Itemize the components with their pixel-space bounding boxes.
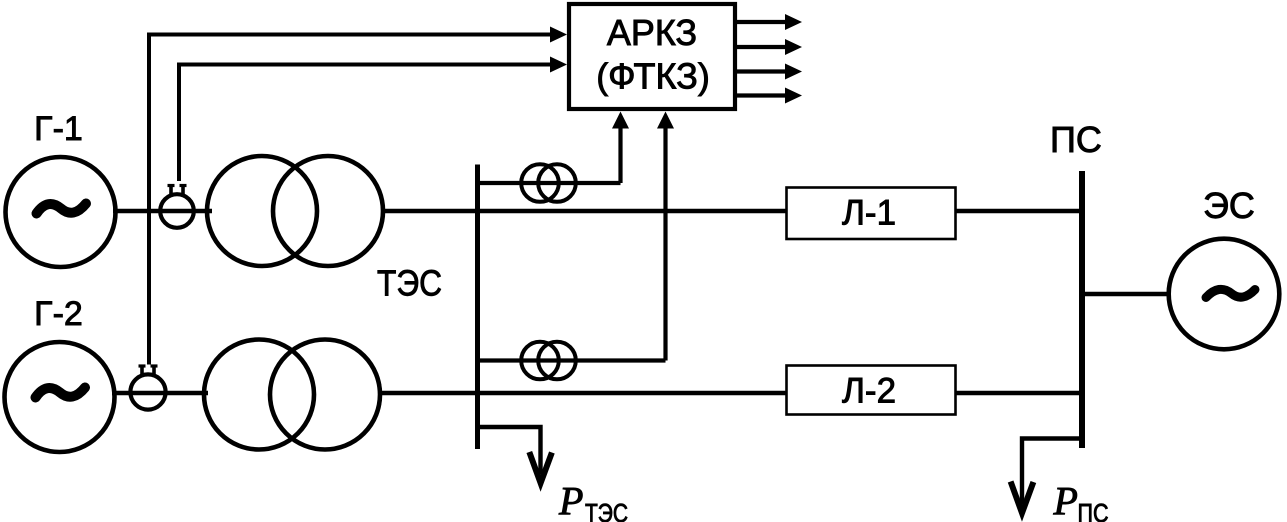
current sensor on G2 lead: [130, 365, 165, 410]
АРКЗ output arrow 1: [737, 14, 802, 30]
bus ПС: [1079, 171, 1085, 448]
label P_ПС: [1053, 479, 1109, 522]
svg-text:ТЭС: ТЭС: [585, 498, 628, 522]
svg-text:Г-1: Г-1: [34, 110, 83, 148]
АРКЗ box: [569, 4, 735, 109]
current sensor on G1 lead: [160, 185, 194, 228]
CT3 double circle: [521, 164, 576, 202]
svg-text:Л-1: Л-1: [842, 194, 896, 233]
wire line1 right segment: [956, 209, 1083, 213]
system ЭС: [1169, 239, 1280, 350]
generator G2: [5, 342, 115, 452]
svg-text:АРКЗ: АРКЗ: [607, 12, 697, 53]
branch wire to CT3: [477, 181, 621, 185]
line box Л-1: [787, 188, 956, 240]
svg-text:Л-2: Л-2: [842, 372, 896, 411]
P_TES branch with down arrow: [477, 427, 552, 483]
svg-text:Г-2: Г-2: [34, 295, 83, 333]
transformer T1: [207, 156, 383, 266]
svg-text:P: P: [558, 479, 583, 522]
wire from sensor G1 to АРКЗ input 2: [179, 57, 567, 182]
wire from sensor G2 to АРКЗ input 1: [149, 27, 567, 365]
wire CT4 to АРКЗ input with arrow: [657, 112, 674, 361]
svg-text:ПС: ПС: [1050, 119, 1102, 160]
wire line2 left segment: [378, 391, 786, 395]
branch wire to CT4: [477, 358, 666, 362]
wire to ЭС: [1084, 292, 1170, 296]
wire G2 lead: [112, 391, 208, 395]
wire line1 left segment: [381, 209, 786, 213]
svg-text:ТЭС: ТЭС: [377, 263, 442, 304]
svg-text:(ФТКЗ): (ФТКЗ): [596, 56, 710, 97]
svg-text:P: P: [1053, 479, 1078, 522]
transformer T2: [204, 340, 380, 450]
svg-text:ПС: ПС: [1078, 498, 1109, 522]
svg-text:ЭС: ЭС: [1203, 185, 1255, 226]
АРКЗ output arrow 4: [737, 88, 802, 104]
generator G1: [6, 157, 116, 267]
line box Л-2: [787, 366, 956, 415]
label P_ТЭС: [558, 479, 628, 522]
АРКЗ output arrow 3: [737, 64, 802, 80]
wire CT3 to АРКЗ input with arrow: [612, 112, 629, 184]
wire line2 right segment: [956, 391, 1083, 395]
wire G1 lead: [113, 209, 212, 213]
АРКЗ output arrow 2: [737, 39, 802, 55]
bus ТЭС: [475, 165, 480, 450]
CT4 double circle: [521, 342, 576, 380]
P_PS branch with down arrow: [1011, 439, 1082, 514]
